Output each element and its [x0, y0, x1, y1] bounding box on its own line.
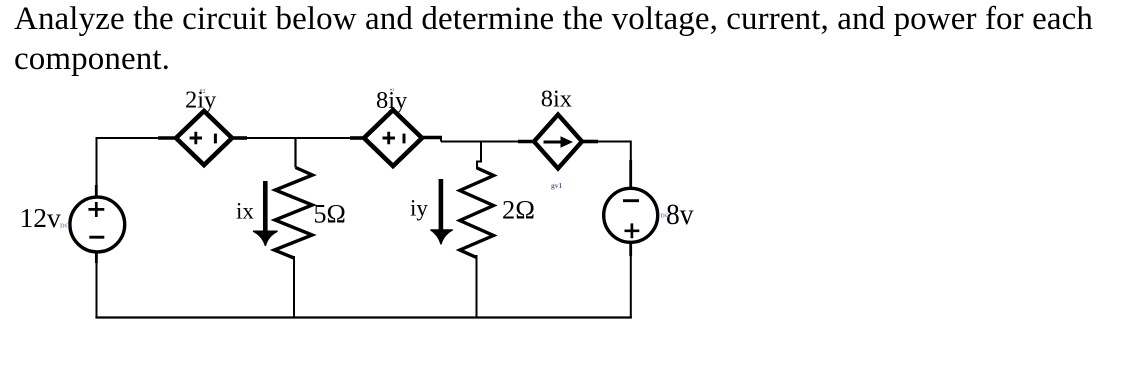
- voltage source V2 8v: [604, 188, 658, 242]
- svg-text:*2: *2: [200, 89, 206, 95]
- label 8ix: [541, 86, 572, 113]
- label gv1 tiny: [551, 181, 563, 190]
- wire lead right of 8iy with step: [422, 137, 442, 142]
- wire left vertical lower: [95, 252, 98, 319]
- wire top rail to 8iy: [246, 137, 365, 139]
- dependent current source 8ix (diamond arrow): [534, 115, 582, 169]
- label 2 ohm: [502, 195, 535, 225]
- svg-text:iy: iy: [410, 196, 428, 221]
- label 2iy: [185, 87, 217, 114]
- wire right vertical lower: [629, 242, 632, 319]
- dependent source 2iy (diamond + -): [176, 111, 232, 165]
- voltage source V1 12v: [70, 197, 125, 252]
- current arrow ix: [254, 181, 278, 245]
- wire top-left horizontal: [97, 137, 160, 139]
- svg-text:*²: *²: [390, 89, 395, 95]
- wire lead left of 8ix: [518, 140, 535, 144]
- label 8v: [661, 198, 694, 231]
- wire lead right of 8ix: [582, 140, 598, 144]
- resistor R1 5ohm zigzag: [274, 168, 312, 259]
- svg-text:ix: ix: [236, 199, 254, 224]
- label ix: [236, 199, 254, 224]
- wire lead left of 8iy: [350, 136, 365, 140]
- node branch to 2ohm resistor: [477, 142, 481, 170]
- label 5 ohm: [314, 200, 346, 229]
- wire bottom rail: [95, 316, 631, 318]
- wire left vertical upper: [95, 137, 97, 198]
- svg-text:5Ω: 5Ω: [314, 200, 346, 229]
- svg-text:12v: 12v: [20, 202, 62, 233]
- svg-text:2Ω: 2Ω: [502, 195, 535, 225]
- label 12v: [20, 202, 70, 233]
- wire lead right of 2iy: [232, 136, 247, 140]
- dependent source 8iy (diamond + -): [364, 110, 422, 166]
- svg-text:DC: DC: [60, 223, 70, 230]
- label iy: [410, 196, 428, 221]
- svg-text:8ix: 8ix: [541, 86, 572, 113]
- svg-text:gv1: gv1: [551, 181, 563, 190]
- resistor R2 2ohm zigzag: [460, 168, 494, 258]
- wire lead left of 2iy: [158, 136, 177, 140]
- svg-text:8v: 8v: [666, 198, 694, 231]
- svg-text:DC: DC: [661, 214, 670, 220]
- label 8iy: [376, 87, 408, 114]
- wire below 5ohm: [293, 256, 295, 319]
- wire below 2ohm: [476, 255, 478, 319]
- wire top-right corner: [597, 141, 631, 189]
- current arrow iy: [431, 179, 452, 244]
- node branch to 5ohm resistor: [294, 138, 296, 168]
- wire rail 8iy to 8ix: [441, 141, 519, 143]
